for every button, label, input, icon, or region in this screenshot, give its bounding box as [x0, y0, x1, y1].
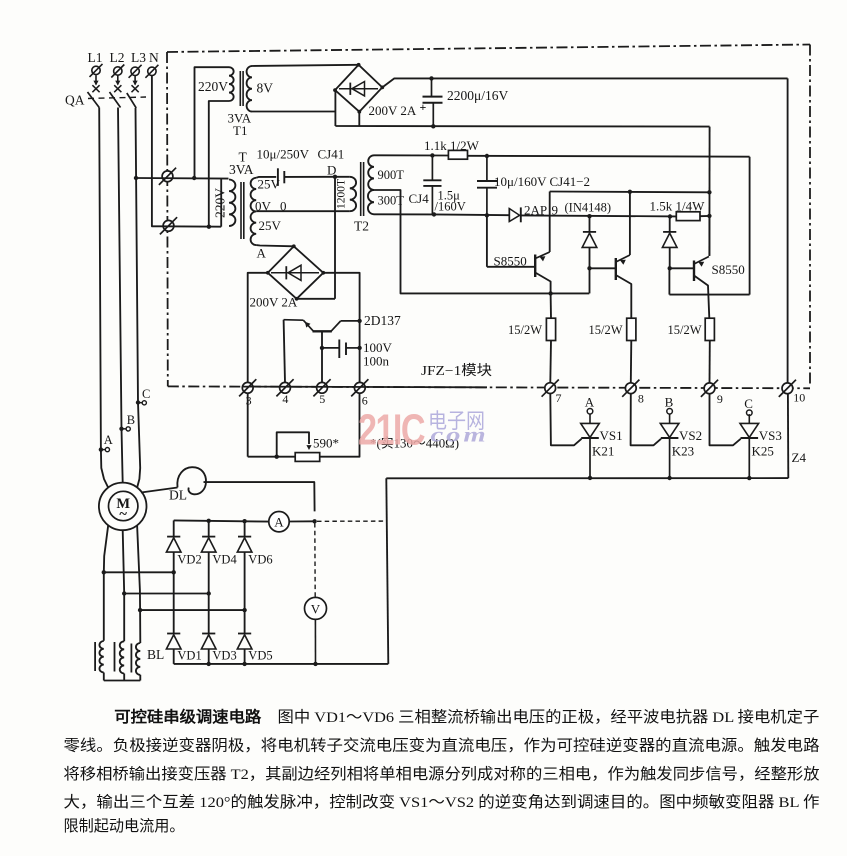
- svg-text:C: C: [142, 387, 150, 401]
- svg-text:CJ4: CJ4: [409, 191, 430, 206]
- voltmeter V: [305, 597, 327, 619]
- junction dot row1 at T1 wire: [192, 176, 196, 180]
- svg-text:+: +: [420, 100, 427, 114]
- wire base3 pull rail: [669, 294, 749, 296]
- diode a 1N4148: [583, 231, 596, 233]
- wire T1 secondary bottom: [252, 111, 336, 113]
- svg-text:10: 10: [793, 391, 805, 405]
- node D dot: [333, 175, 337, 179]
- wire rotor lead 1: [104, 525, 108, 641]
- wire T secondary top tap to capacitor: [256, 176, 276, 179]
- svg-text:T1: T1: [233, 123, 247, 138]
- resistor 15/2W #1: [546, 318, 555, 340]
- wire DC rail y126: [335, 125, 709, 128]
- transistor V2 collector: [616, 275, 632, 318]
- junction dot diode a bottom: [587, 266, 591, 270]
- node B stator tap: [119, 427, 123, 431]
- BL coil 3: [136, 643, 140, 675]
- diode 2AP9: [508, 208, 510, 222]
- svg-text:15/2W: 15/2W: [589, 323, 623, 337]
- bridge rectifier 2 diamond: [268, 246, 324, 298]
- svg-text:VS3: VS3: [759, 428, 782, 443]
- svg-text:零线。负极接逆变器阴极，将电机转子交流电压变为直流电压，作为: 零线。负极接逆变器阴极，将电机转子交流电压变为直流电压，作为可控硅逆变器的直流电…: [64, 737, 820, 755]
- bridge 1 corner dots: [357, 63, 361, 67]
- svg-text:大，输出三个互差 120°的触发脉冲，控制改变 VS1～VS: 大，输出三个互差 120°的触发脉冲，控制改变 VS1～VS2 的逆变角达到调速…: [64, 794, 820, 811]
- transistor V1 collector: [535, 273, 550, 294]
- wire supply right corner down: [749, 157, 751, 295]
- svg-text:VD6: VD6: [248, 553, 272, 567]
- wire terminal row solid section pins 3-6: [242, 386, 487, 389]
- module pin 5 terminal: [317, 382, 328, 393]
- wire T secondary bottom tap to bridge2: [256, 245, 294, 246]
- wire T2 900T top to supply row: [374, 154, 448, 156]
- input terminal circle L1: [92, 66, 100, 74]
- wire pin8 to VS2 gate: [631, 394, 661, 445]
- svg-text:限制起动电流用。: 限制起动电流用。: [64, 818, 185, 835]
- switch QA blade L2: [110, 92, 121, 108]
- junction dot 1.5k right: [707, 214, 711, 218]
- diode VD2: [173, 520, 175, 536]
- svg-text:A: A: [257, 246, 267, 261]
- svg-text:220V: 220V: [198, 79, 228, 94]
- capacitor 100n: [322, 347, 339, 349]
- svg-text:8V: 8V: [257, 81, 274, 96]
- junction dot pot wiper tie: [275, 455, 279, 459]
- wire row pin1 from L3 to transformer T primary top: [136, 177, 229, 180]
- node C stator tap: [136, 400, 140, 404]
- transistor V2 base wire: [590, 267, 616, 269]
- junction dots 2200u: [429, 76, 433, 80]
- junction dot emitter rail right: [707, 190, 711, 194]
- wire 1200T bottom down to bridge2 minus: [334, 211, 336, 299]
- wire pin10 down to cathode rail: [787, 394, 789, 478]
- svg-text:2200μ/16V: 2200μ/16V: [447, 88, 508, 103]
- wire rotor row a: [104, 571, 174, 573]
- input terminal circle L2: [114, 67, 122, 75]
- svg-text:VD1: VD1: [177, 649, 201, 663]
- transistor V1 S8550 base bar: [534, 255, 536, 278]
- svg-text:2D137: 2D137: [364, 313, 401, 328]
- junction dot 10u bottom row: [485, 213, 489, 217]
- junction dot row2: [207, 225, 211, 229]
- junction dot 10u top: [485, 154, 489, 158]
- switch QA blade L1: [88, 92, 100, 108]
- potentiometer 590 body: [295, 453, 320, 462]
- BL coil 2: [120, 641, 124, 673]
- wire trigger row y215: [374, 213, 509, 216]
- junction dots row c: [138, 608, 142, 612]
- wire T secondary mid tap 0V: [256, 210, 335, 212]
- transformer T1 core: [239, 71, 241, 106]
- svg-text:1.5k 1/4W: 1.5k 1/4W: [650, 199, 706, 214]
- thyristor VS3: [748, 414, 750, 423]
- junction dot CJ4 bottom: [432, 212, 436, 216]
- BL core bar 2: [114, 642, 116, 672]
- svg-text:L3: L3: [131, 50, 146, 65]
- svg-text:B: B: [127, 413, 135, 427]
- pot wiper: [277, 432, 309, 456]
- transistor V1 emitter: [535, 252, 550, 259]
- svg-text:com: com: [431, 425, 489, 447]
- svg-text:10μ/160V CJ41−2: 10μ/160V CJ41−2: [494, 174, 590, 189]
- module pin 2 terminal: [163, 220, 174, 231]
- junction dot base-cap node: [320, 346, 324, 350]
- wire thyristor cathode rail: [386, 477, 788, 479]
- svg-text:B: B: [665, 394, 674, 409]
- svg-text:VD3: VD3: [212, 649, 236, 663]
- wire rectifier top row to ammeter: [174, 520, 269, 521]
- transformer T1 primary coil: [229, 67, 234, 101]
- wire DC link vertical right of rectifier: [386, 478, 388, 664]
- svg-text:9: 9: [717, 392, 723, 406]
- bridge 2 corner dots: [292, 244, 296, 248]
- wire row pin2 to transformer T primary bottom: [163, 225, 221, 227]
- junction dots bottom rail: [207, 662, 211, 666]
- wire supply row after 1.1k: [468, 155, 750, 158]
- svg-text:590*: 590*: [313, 436, 339, 451]
- svg-text:Z4: Z4: [792, 450, 807, 465]
- transistor V2 S8550 base bar: [615, 258, 617, 280]
- junction dot cap right: [357, 346, 361, 350]
- svg-text:15/2W: 15/2W: [668, 323, 702, 337]
- junction dot row1 at L3: [134, 176, 138, 180]
- wire L2 phase line down to motor: [118, 108, 123, 483]
- transformer T2 core: [360, 162, 362, 216]
- wire collector rail V1 to diode a: [589, 268, 591, 293]
- transformer T1 primary wire loop (220V box): [195, 67, 230, 178]
- module pin 6 terminal: [354, 382, 365, 393]
- wire ammeter junction to DC link (dashed): [317, 520, 387, 522]
- wire 1.5k to emitter column: [700, 215, 709, 217]
- wire T1 secondary top to bridge: [252, 65, 359, 66]
- capacitor CJ4 1.5u/160V: [431, 155, 433, 180]
- transformer T2 secondary coil 300T: [368, 190, 374, 214]
- module pin 10 terminal: [782, 383, 793, 394]
- transistor V3 S8550 base bar: [693, 261, 695, 282]
- svg-text:K25: K25: [752, 444, 774, 459]
- wire pin10 column vertical: [787, 78, 789, 382]
- diode VD1: [167, 633, 180, 635]
- svg-text:1200T: 1200T: [336, 179, 348, 209]
- BL core bar 1: [94, 642, 96, 671]
- wire DL output to ammeter branch: [204, 482, 315, 511]
- input terminal circle N: [148, 67, 156, 75]
- JFZ-1 module boundary bottom chain line (terminal row): [168, 386, 810, 388]
- wire bridge2 bottom corner: [297, 298, 335, 300]
- svg-text:VS1: VS1: [600, 428, 623, 443]
- transistor V1 base wire: [487, 266, 535, 268]
- junction dot ammeter branch: [312, 519, 316, 523]
- svg-text:K21: K21: [592, 444, 614, 459]
- svg-text:200V 2A: 200V 2A: [250, 295, 298, 310]
- junction dots row a: [102, 570, 106, 574]
- svg-text:10μ/250V: 10μ/250V: [257, 147, 310, 162]
- transformer T primary coil: [229, 180, 235, 227]
- svg-text:A: A: [104, 433, 113, 447]
- diode VD3: [202, 633, 215, 635]
- svg-text:4: 4: [282, 392, 288, 406]
- svg-text:VD2: VD2: [177, 553, 201, 567]
- svg-text:C: C: [744, 396, 753, 411]
- terminal B above VS2: [667, 409, 673, 415]
- wire ammeter right: [289, 520, 314, 522]
- transistor 2D137: [313, 330, 332, 332]
- wire pot bottom row: [248, 456, 296, 458]
- svg-text:200V 2A: 200V 2A: [369, 103, 417, 118]
- module pin 3 terminal: [242, 382, 253, 393]
- wire bridge2 left corner to pin3: [248, 273, 268, 383]
- wire bridge1 bottom corner stub: [358, 112, 360, 126]
- wire trigger row after 2AP9: [521, 215, 677, 216]
- wire rotor row b: [124, 593, 209, 595]
- wire L3 phase line down to motor: [136, 108, 141, 488]
- svg-text:25V: 25V: [259, 218, 282, 233]
- diode VD6: [244, 521, 246, 536]
- BL common bottom wire: [104, 680, 141, 682]
- choke DL lead from motor: [141, 488, 178, 493]
- svg-text:VS2: VS2: [679, 428, 702, 443]
- thyristor VS1: [589, 414, 591, 423]
- BL coil 1: [99, 641, 103, 673]
- BL core bar 3: [130, 644, 132, 673]
- capacitor 10u/160V CJ41-2: [486, 156, 488, 181]
- svg-text:L2: L2: [110, 50, 125, 65]
- wire rotor lead 2: [123, 530, 125, 641]
- resistor 1.5k 1/4W: [676, 212, 700, 221]
- motor M inner circle: [109, 491, 138, 520]
- capacitor 10u/250V CJ41: [277, 168, 279, 186]
- wire DC rail down pin9 column: [708, 127, 710, 256]
- svg-text:(IN4148): (IN4148): [565, 201, 612, 215]
- terminal C above VS3: [747, 410, 753, 416]
- switch QA blade L3: [127, 93, 136, 108]
- wire pin9 to VS3 gate: [710, 394, 741, 445]
- junction dot diode VD-a top: [587, 214, 591, 218]
- fuse stub and moving contact L2: [117, 75, 119, 84]
- wire rectifier bottom rail: [174, 663, 389, 665]
- module pin 7 terminal: [545, 383, 556, 394]
- module pin 1 terminal: [162, 171, 173, 182]
- junction dot collector V1: [548, 291, 552, 295]
- wire voltmeter to bottom rail: [314, 619, 316, 664]
- svg-text:JFZ−1模块: JFZ−1模块: [421, 363, 492, 379]
- svg-text:可控硅串级调速电路 图中 VD1～VD6 三相整流桥输出电压: 可控硅串级调速电路 图中 VD1～VD6 三相整流桥输出电压的正极，经平波电抗器…: [114, 708, 819, 726]
- junction dot CJ4 top: [430, 153, 434, 157]
- module pin 8 terminal: [625, 383, 636, 394]
- diode b 1N4148: [663, 231, 676, 233]
- junction dot emitter rail mid: [628, 190, 632, 194]
- svg-text:7: 7: [556, 391, 562, 405]
- svg-text:21IC: 21IC: [358, 406, 425, 455]
- capacitor 2200u/16V: [431, 78, 433, 96]
- svg-text:/160V: /160V: [435, 200, 466, 214]
- svg-text:8: 8: [638, 391, 644, 405]
- JFZ-1 module boundary right chain line: [809, 45, 811, 386]
- thyristor VS2: [669, 414, 671, 423]
- module pin 4 terminal: [280, 382, 291, 393]
- choke DL loop: [177, 467, 206, 494]
- transistor V2 emitter: [616, 255, 630, 262]
- wire rotor row c: [140, 609, 245, 611]
- svg-text:A: A: [274, 515, 284, 530]
- transformer T secondary coil 25V-0V-25V: [251, 178, 257, 245]
- transformer T1 secondary coil 8V: [247, 66, 252, 112]
- svg-text:CJ41: CJ41: [318, 147, 345, 162]
- svg-text:QA: QA: [65, 93, 85, 108]
- svg-text:900T: 900T: [378, 168, 405, 182]
- transistor V3 emitter: [694, 257, 709, 265]
- wire 2D137 base down to pin5: [321, 331, 323, 382]
- wire pin3 down to pot: [247, 394, 249, 457]
- junction dot 2D137 collector: [357, 319, 361, 323]
- junction dot diode b bottom: [668, 266, 672, 270]
- junction dot diode VD-b top: [668, 214, 672, 218]
- wire rotor lead 3: [137, 525, 140, 643]
- wire bridge1 left corner to 8V return: [334, 90, 336, 126]
- svg-text:S8550: S8550: [712, 262, 745, 277]
- wire diode b node down to rail: [668, 268, 670, 294]
- junction dots top row: [207, 519, 211, 523]
- JFZ-1 module boundary left chain line: [166, 52, 169, 386]
- transformer T2 secondary coil 900T: [368, 155, 374, 190]
- resistor 1.1k 1/2W: [448, 150, 467, 159]
- wire V1 base tie to row: [486, 215, 488, 266]
- wire pin7 to VS1 gate: [550, 394, 581, 446]
- terminal A above VS1: [587, 409, 593, 415]
- resistor 15/2W #2: [627, 318, 636, 340]
- switch QA mechanical tie (dashed): [88, 97, 146, 99]
- bridge rectifier 1 diamond: [335, 65, 382, 112]
- wire voltmeter branch upper (dashed): [314, 523, 316, 597]
- wire T2 center tap to oscillator return rail: [374, 190, 589, 293]
- wire N line to module pin 2: [152, 76, 163, 227]
- svg-text:220V: 220V: [213, 188, 228, 218]
- wire bridge2 right corner to pin6 column: [323, 273, 359, 383]
- wire L1 phase line down to motor: [99, 108, 108, 488]
- svg-text:VD4: VD4: [212, 553, 237, 567]
- svg-text:VD5: VD5: [248, 649, 272, 663]
- svg-text:DL: DL: [169, 488, 187, 503]
- svg-text:BL: BL: [147, 647, 164, 662]
- ammeter A: [269, 512, 289, 532]
- svg-text:T2: T2: [354, 219, 369, 234]
- bridge rectifier 2 inner diode: [271, 272, 319, 274]
- fuse stub and moving contact L1: [95, 75, 97, 84]
- diode VD4: [208, 521, 210, 537]
- svg-text:K23: K23: [672, 444, 694, 459]
- transformer T2 primary coil 1200T: [350, 177, 356, 211]
- junction dots cathode rail: [588, 476, 592, 480]
- svg-text:V: V: [311, 601, 321, 616]
- bridge rectifier 1 inner diode: [339, 88, 378, 90]
- wire bridge1 plus rail to pin10 column: [382, 78, 787, 87]
- svg-text:5: 5: [319, 392, 325, 406]
- svg-text:L1: L1: [88, 50, 103, 65]
- svg-text:100n: 100n: [363, 354, 390, 369]
- JFZ-1 module boundary top chain line: [167, 45, 810, 53]
- svg-text:将移相桥输出接变压器 T2，其副边经列相将单相电源分列成对称: 将移相桥输出接变压器 T2，其副边经列相将单相电源分列成对称的三相电，作为触发同…: [64, 766, 820, 783]
- wire 2D137 emitter down to pin4: [284, 320, 285, 383]
- module pin 9 terminal: [704, 383, 715, 394]
- wire capacitor to node D: [284, 176, 335, 178]
- fuse stub and moving contact L3: [134, 75, 136, 84]
- diode VD5: [238, 633, 251, 635]
- wire emitter rail y191.5: [550, 191, 710, 194]
- wire pot right to pin6: [320, 394, 360, 457]
- resistor 15/2W #3: [705, 318, 714, 340]
- transformer T2 primary box: [335, 177, 350, 211]
- svg-text:N: N: [149, 50, 159, 65]
- node A stator tap: [99, 447, 103, 451]
- svg-text:~: ~: [119, 507, 127, 523]
- transistor V3 collector: [694, 276, 709, 319]
- svg-text:A: A: [585, 394, 595, 409]
- transformer T primary box left edge: [220, 179, 222, 227]
- junction dots row b: [122, 591, 126, 595]
- svg-text:3VA: 3VA: [229, 162, 254, 177]
- motor M outer circle: [99, 483, 147, 531]
- svg-text:S8550: S8550: [494, 254, 527, 269]
- transistor V3 base wire: [670, 267, 694, 269]
- transformer T core: [240, 182, 242, 239]
- svg-text:1.1k 1/2W: 1.1k 1/2W: [424, 138, 480, 153]
- input terminal circle L3: [131, 67, 139, 75]
- svg-text:15/2W: 15/2W: [508, 323, 542, 337]
